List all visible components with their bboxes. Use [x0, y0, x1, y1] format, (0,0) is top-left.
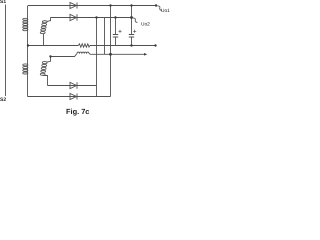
- svg-text:Uo2: Uo2: [141, 21, 150, 27]
- svg-text:Fig. 7c: Fig. 7c: [66, 107, 89, 116]
- svg-text:S2: S2: [0, 97, 6, 103]
- svg-text:Uo1: Uo1: [161, 8, 170, 14]
- svg-text:S1: S1: [0, 0, 6, 5]
